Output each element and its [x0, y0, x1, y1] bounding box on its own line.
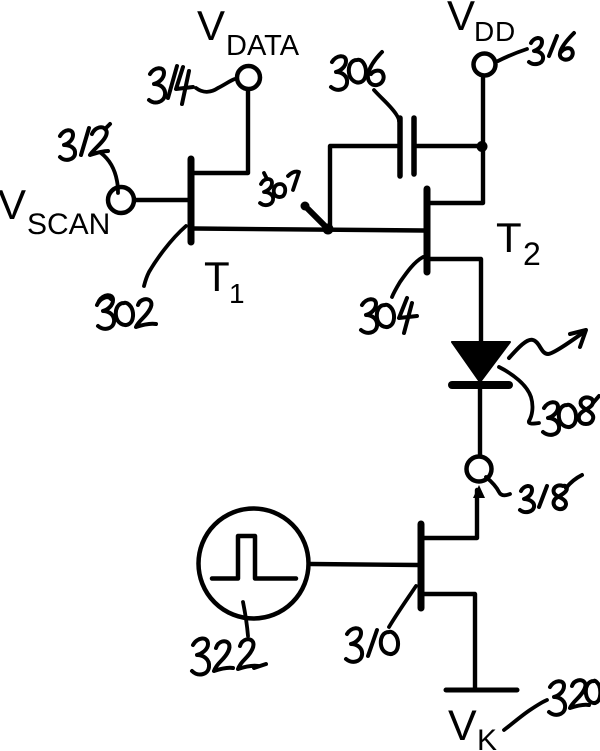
- leader 307 (thick pointer): [305, 206, 325, 226]
- leader 310: [389, 586, 416, 627]
- arrowhead into node 318: [473, 485, 485, 498]
- wire node 318 down to T310 drain: [424, 490, 477, 538]
- wire pulse source to T310 gate: [311, 564, 418, 565]
- transistor 310 bar: [418, 524, 425, 608]
- svg-text:1: 1: [229, 278, 245, 309]
- wire T1 source to T2 gate (node row): [194, 229, 424, 231]
- label V_DATA: [197, 2, 300, 62]
- label T2: [496, 214, 541, 272]
- label 312: [60, 124, 110, 160]
- wire capacitor right to V_DD line: [417, 144, 482, 148]
- leader 308: [499, 367, 539, 424]
- label 310: [346, 628, 398, 662]
- svg-text:V: V: [197, 2, 225, 49]
- light emission arrow: [509, 330, 586, 358]
- leader 318: [486, 477, 510, 495]
- svg-text:K: K: [477, 724, 497, 751]
- label V_SCAN: [0, 181, 110, 241]
- junction dot at V_DD line: [477, 141, 488, 152]
- svg-text:V: V: [448, 702, 477, 750]
- label 306: [331, 52, 384, 90]
- terminal 312 (V_SCAN): [108, 187, 134, 213]
- wire T310 source down to V_K: [424, 594, 475, 688]
- label V_K: [448, 702, 497, 751]
- svg-text:DATA: DATA: [226, 30, 300, 62]
- label 304: [361, 298, 417, 333]
- label T1: [204, 253, 245, 309]
- wire V_DD down to T2 drain: [430, 78, 483, 203]
- pulse source 322 circle: [199, 509, 309, 619]
- wire V_DATA down to T1 drain: [194, 91, 248, 173]
- leader 316: [498, 49, 527, 61]
- svg-text:V: V: [447, 0, 475, 39]
- LED 308 triangle: [452, 342, 510, 382]
- capacitor 306 right plate: [411, 118, 417, 174]
- label 308: [543, 396, 599, 435]
- svg-text:2: 2: [523, 236, 541, 272]
- leader 302: [144, 226, 186, 286]
- leader 314: [196, 79, 235, 92]
- terminal 314 (V_DATA): [237, 66, 260, 89]
- transistor T1 bar: [188, 159, 195, 242]
- label V_DD: [447, 0, 516, 47]
- label 318: [520, 475, 582, 512]
- svg-text:SCAN: SCAN: [27, 208, 110, 241]
- svg-text:DD: DD: [474, 16, 516, 47]
- leader 304: [392, 257, 423, 297]
- svg-text:T: T: [204, 253, 230, 300]
- svg-text:T: T: [496, 214, 522, 261]
- label 320: [549, 680, 600, 715]
- label 314: [149, 66, 193, 104]
- leader 322: [243, 602, 248, 636]
- wire V_SCAN to T1 gate: [135, 198, 188, 202]
- leader 312: [101, 153, 118, 193]
- V_K bar: [446, 688, 517, 693]
- node 307 dot: [323, 224, 334, 235]
- transistor T2 bar: [424, 189, 431, 272]
- leader 320: [504, 700, 547, 730]
- label 316: [529, 33, 574, 64]
- wire LED to node 318: [478, 389, 482, 455]
- svg-text:V: V: [0, 181, 26, 228]
- node circle 318: [467, 457, 492, 482]
- pulse waveform: [212, 536, 296, 579]
- leader 306: [374, 90, 399, 121]
- capacitor 306 left plate: [397, 118, 403, 176]
- label 307: [260, 172, 299, 205]
- LED 308 cathode bar: [452, 381, 509, 389]
- label 302: [97, 295, 156, 329]
- wire T2 source down to LED: [430, 259, 481, 341]
- wire node 307 up to capacitor: [330, 146, 397, 227]
- terminal 316 (V_DD): [474, 54, 496, 76]
- label 322: [192, 638, 266, 674]
